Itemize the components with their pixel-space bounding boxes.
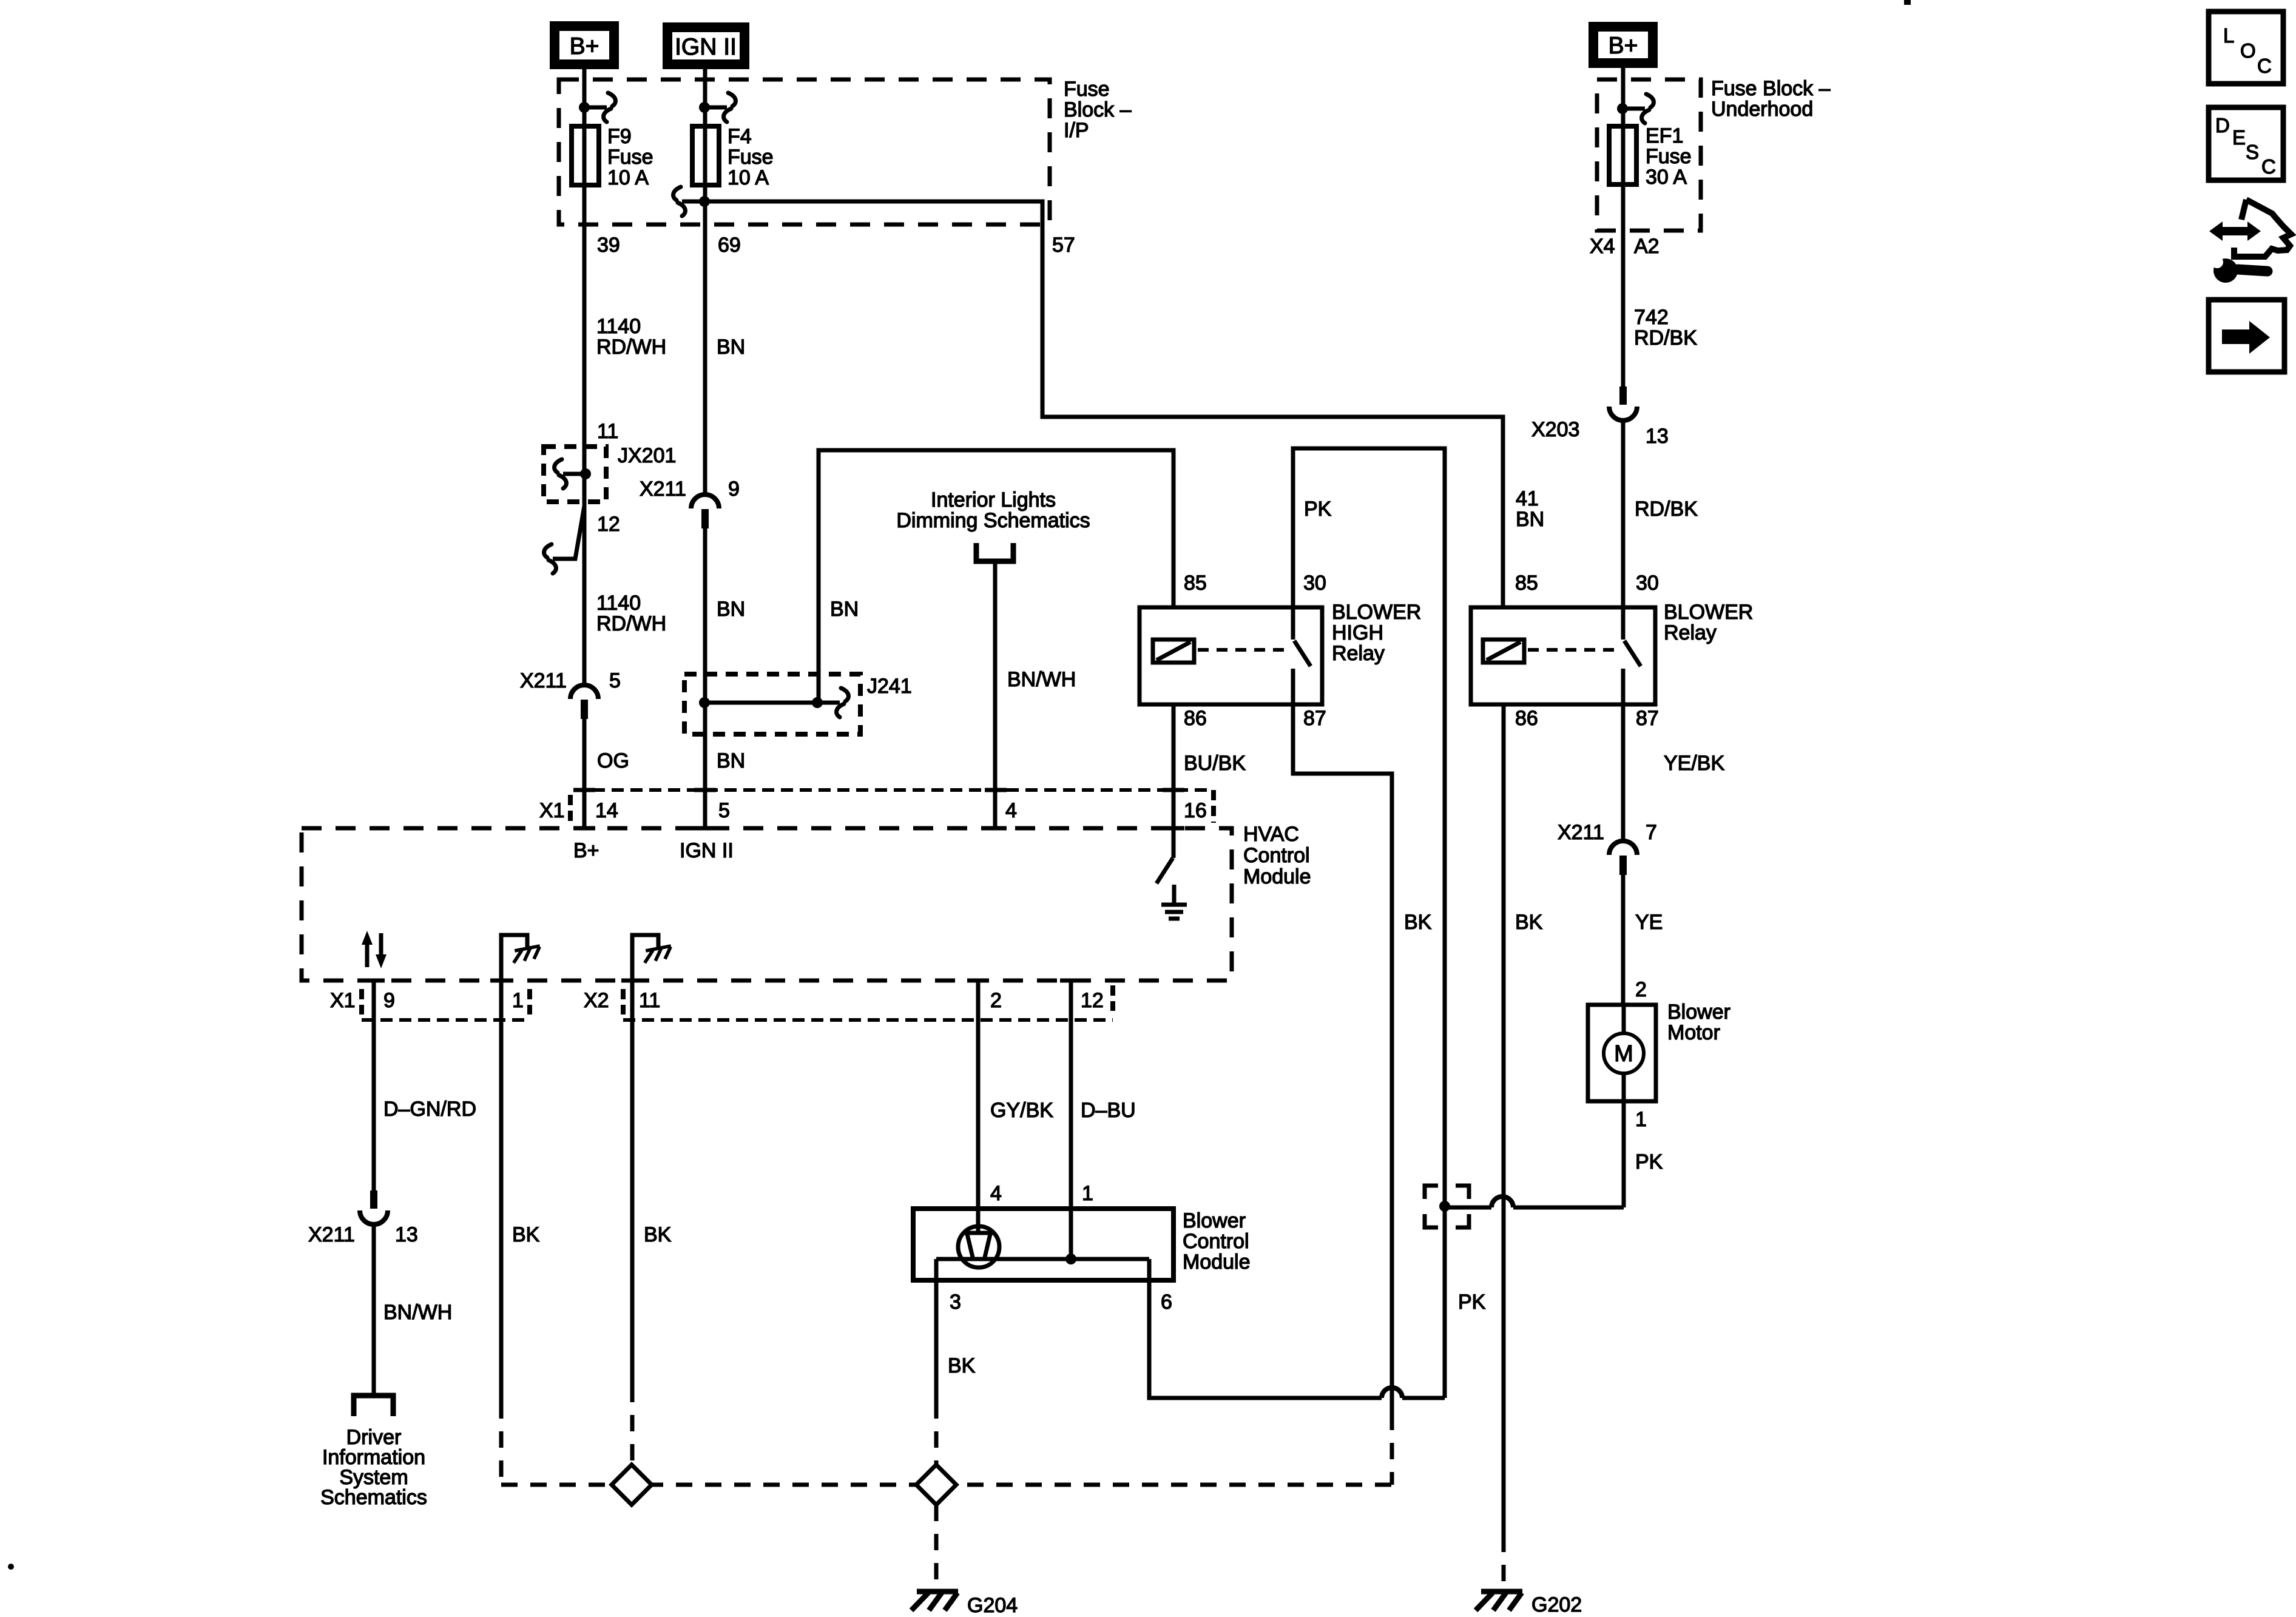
svg-text:BN: BN [1516,508,1544,531]
wire BN/WH to driver information system [372,1223,376,1396]
power feed B+ (fuse block underhood) [1589,22,1658,68]
svg-text:Fuse: Fuse [1064,78,1110,101]
label X211 9 [640,478,740,501]
svg-text:Motor: Motor [1667,1021,1720,1044]
wire BU/BK from blower high relay 86 to HVAC pin 16 [1172,704,1176,858]
svg-text:X1: X1 [539,799,565,822]
wire YE/BK from blower relay 87 [1621,704,1626,841]
node junction at fuse EF1 input [1617,103,1628,114]
wire label 41 BN [1516,487,1544,531]
pin crossbars top row [573,788,595,792]
wire BK dashed (pin 3) to splice diamond [934,1402,939,1465]
wire BN/WH to HVAC pin 4 [993,561,998,828]
fuse F9 terminal clip [584,106,607,110]
wire B+ feed down (circuit 1140) [582,69,587,685]
wire BK from blower high relay 87 [1293,704,1392,1414]
svg-text:4: 4 [1005,799,1017,822]
svg-text:Blower: Blower [1667,1001,1730,1024]
label X203 13 [1531,418,1669,448]
svg-text:Control: Control [1243,844,1310,867]
svg-text:BN/WH: BN/WH [1007,668,1076,691]
label X211 5 [520,669,621,692]
label X211 13 [308,1223,418,1246]
svg-text:13: 13 [395,1223,418,1246]
wire OG to HVAC pin 14 [582,719,587,828]
wire splice J241 link [704,701,817,705]
svg-text:13: 13 [1646,425,1669,448]
wire BN riser from J241 to blower high relay 85 [819,450,1173,703]
node junction at fuse F4 input [699,102,710,113]
label Blower Control Module [1183,1209,1251,1274]
wire from blower control pin 6 [1149,1259,1382,1398]
relay BLOWER HIGH contact switch [1291,607,1295,640]
wire BK dashed (pin 1) to ground bus corner [499,1402,504,1487]
svg-text:39: 39 [597,234,620,257]
relay BLOWER box [1471,607,1655,704]
svg-text:B+: B+ [573,839,599,862]
svg-text:12: 12 [1081,989,1104,1012]
icon vehicle with double arrow and wrench [2209,200,2291,283]
svg-text:X1: X1 [330,989,356,1012]
wire BK from blower control pin 3 [934,1259,939,1402]
wire BK from HVAC pin 1 [499,981,504,1402]
wire pin 6 run to PK junction [1402,1396,1445,1400]
wire label 1140 RD/WH (below splice) [596,592,666,635]
relay BLOWER coil-contact dashed link [1528,648,1620,652]
module Blower Control Module box [913,1209,1173,1280]
svg-text:BN/WH: BN/WH [383,1301,452,1324]
label BLOWER Relay [1664,601,1753,644]
connector separator dashes (bottom row) [359,989,364,1014]
ground bus dashed line [501,1483,1392,1487]
serial data arrows (HVAC pin 9) [362,931,387,968]
label Fuse Block Underhood [1711,77,1831,121]
svg-text:X211: X211 [520,669,567,692]
splice JX201 terminal clip [563,472,586,476]
svg-text:Relay: Relay [1664,621,1717,644]
svg-text:9: 9 [383,989,395,1012]
svg-text:RD/WH: RD/WH [596,612,666,635]
svg-text:Module: Module [1243,865,1311,888]
svg-text:X4: X4 [1590,235,1615,258]
svg-text:BLOWER: BLOWER [1332,601,1421,624]
svg-text:G202: G202 [1531,1593,1582,1616]
svg-text:C: C [2257,55,2272,77]
svg-text:87: 87 [1303,707,1326,730]
svg-text:JX201: JX201 [618,444,676,467]
fuse F9 10 A [572,126,599,185]
svg-text:6: 6 [1161,1291,1172,1314]
svg-text:X211: X211 [1558,821,1604,844]
svg-text:1: 1 [512,989,524,1012]
svg-text:Relay: Relay [1332,642,1385,665]
svg-text:I/P: I/P [1064,119,1089,142]
svg-text:Interior Lights: Interior Lights [931,488,1056,511]
connector X211 pin 13 [370,1190,377,1209]
wire RD/BK to blower relay 30 [1621,419,1626,607]
label pins 4 and 1 (blower control inputs) [990,1182,1093,1205]
wire YE to blower motor pin 2 [1621,875,1626,1005]
svg-text:Underhood: Underhood [1711,98,1813,121]
svg-text:D–GN/RD: D–GN/RD [383,1098,476,1121]
fuse F4 10 A [692,126,719,185]
wire BN to HVAC pin 5 [703,528,707,828]
svg-text:RD/WH: RD/WH [596,336,666,359]
svg-text:BLOWER: BLOWER [1664,601,1753,624]
connector X1 separator dashes (top row) [568,795,573,824]
node junction pin 1 to output [1065,1254,1076,1264]
label pins 85 30 86 87 (blower relay) [1515,572,1659,730]
icon forward arrow box [2209,300,2284,372]
svg-text:Control: Control [1183,1230,1249,1253]
svg-text:S: S [2246,141,2259,163]
svg-text:EF1: EF1 [1646,124,1683,147]
label X1 14 5 4 16 (top row) [539,799,1207,822]
svg-text:F4: F4 [728,125,752,148]
svg-text:1140: 1140 [596,315,641,338]
svg-text:PK: PK [1635,1150,1663,1173]
svg-text:3: 3 [950,1291,961,1314]
splice diamond (pin 11 BK) [612,1465,652,1505]
fuse EF1 terminal clip [1622,107,1645,111]
svg-text:1: 1 [1082,1182,1093,1205]
label Blower Motor [1667,1001,1730,1044]
svg-text:O: O [2240,39,2256,62]
node junction at fuse F9 input [579,102,590,113]
svg-text:HVAC: HVAC [1243,823,1299,846]
svg-text:Blower: Blower [1183,1209,1246,1232]
svg-text:IGN II: IGN II [680,839,734,862]
svg-text:IGN II: IGN II [675,34,737,60]
relay BLOWER contact switch [1621,607,1626,640]
connector X1 bottom dotted row [362,1018,529,1022]
svg-text:86: 86 [1184,707,1207,730]
wire PK from splice to blower control pin 6 junction [1443,1206,1447,1398]
pin crossbars module top edge [573,826,595,831]
svg-text:Dimming Schematics: Dimming Schematics [896,509,1090,532]
svg-text:BN: BN [830,598,859,621]
connector X211 pin 7 [1609,841,1637,855]
pin crossbars module bottom edge [363,979,385,983]
icon LOC box [2209,12,2283,84]
driver transistor symbol (blower control) [958,1226,999,1268]
wire label 742 RD/BK [1634,306,1697,349]
wire BK dashed continuation to ground bus [1390,1414,1394,1485]
page speck top right [1904,0,1911,5]
wire PK from blower high relay 30 down to splice [1293,448,1445,1206]
label F9 Fuse 10 A [607,125,653,189]
svg-text:L: L [2223,24,2234,47]
off-page bracket interior lights [976,543,1013,561]
label HVAC Control Module [1243,823,1311,888]
label BLOWER HIGH Relay [1332,601,1421,665]
node splice J241 on IGN II wire [699,697,710,708]
fuse block I/P dashed enclosure [559,79,1050,224]
component Blower Motor box [1588,1005,1656,1101]
svg-text:PK: PK [1304,498,1332,521]
svg-text:BN: BN [717,598,745,621]
wire hop over BK at pin 6 run [1382,1388,1402,1398]
svg-text:5: 5 [609,669,621,692]
svg-text:11: 11 [597,420,618,443]
svg-text:7: 7 [1646,821,1657,844]
svg-text:4: 4 [990,1182,1002,1205]
connector X2 bottom dotted row [623,1018,1113,1022]
svg-text:10 A: 10 A [607,166,649,189]
label X1 9 1 X2 11 2 12 (bottom row) [330,989,1104,1012]
fuse F4 terminal clip [704,106,727,110]
wire BK dashed (pin 11) to splice diamond [630,1386,635,1465]
relay BLOWER HIGH coil-contact dashed link [1198,648,1290,652]
label F4 Fuse 10 A [728,125,774,189]
svg-text:D–BU: D–BU [1081,1099,1136,1122]
svg-text:Fuse: Fuse [728,146,774,169]
svg-text:HIGH: HIGH [1332,621,1383,644]
ground G202 [1481,1589,1522,1595]
svg-text:85: 85 [1515,572,1538,595]
label X211 7 [1558,821,1657,844]
svg-text:Schematics: Schematics [320,1486,427,1509]
power feed B+ (fuse block I/P) [550,21,619,69]
svg-text:57: 57 [1052,234,1075,257]
svg-text:A2: A2 [1634,235,1660,258]
svg-text:B+: B+ [570,33,599,59]
svg-text:2: 2 [990,989,1002,1012]
svg-text:742: 742 [1634,306,1669,329]
svg-text:YE: YE [1635,911,1663,934]
svg-text:Fuse Block –: Fuse Block – [1711,77,1831,100]
svg-text:D: D [2215,114,2230,137]
wire label 1140 RD/WH [596,315,666,359]
svg-text:87: 87 [1636,707,1659,730]
node splice JX201 [580,468,591,479]
wire internal output bus of blower control module [936,1257,1149,1261]
relay BLOWER coil [1483,640,1524,663]
svg-text:X203: X203 [1531,418,1579,441]
wire fuse output 57 to blower relay 85 (41 BN) [704,201,1503,607]
switch HVAC blower control (pin 16) and internal ground [1172,828,1176,858]
svg-text:GY/BK: GY/BK [990,1099,1053,1122]
svg-text:PK: PK [1458,1291,1486,1314]
svg-text:30 A: 30 A [1646,166,1687,189]
motor symbol M [1622,1005,1626,1034]
svg-text:YE/BK: YE/BK [1664,752,1724,775]
svg-text:Fuse: Fuse [1646,145,1692,168]
svg-text:C: C [2261,155,2276,178]
splice diamond (pin 3 BK, G204) [916,1465,956,1505]
svg-text:Fuse: Fuse [607,146,653,169]
splice J241 terminal clip [817,701,840,705]
label B+ and IGN II (module inputs) [573,839,734,862]
svg-text:RD/BK: RD/BK [1634,326,1697,349]
fuse F4 output terminal clip [682,200,704,204]
svg-text:16: 16 [1184,799,1207,822]
wire BK from HVAC pin 11 [630,981,635,1386]
wire hop over BK at motor return [1491,1197,1513,1207]
svg-text:9: 9 [728,478,740,501]
svg-text:BN: BN [717,336,745,359]
svg-text:69: 69 [718,234,741,257]
svg-text:BU/BK: BU/BK [1184,752,1246,775]
svg-text:X211: X211 [640,478,686,501]
svg-text:E: E [2232,126,2246,149]
internal ground hook (HVAC pin 11) [632,935,658,981]
svg-text:85: 85 [1184,572,1207,595]
svg-text:Block –: Block – [1064,98,1132,121]
internal ground hook (HVAC pin 1) [501,935,527,981]
icon DESC box [2209,107,2283,180]
connector X211 pin 5 [570,685,598,699]
svg-text:30: 30 [1303,572,1326,595]
wire dashed BK to ground G202 [1502,1536,1506,1588]
wire PK from blower motor pin 1 [1622,1101,1626,1207]
fuse block underhood dashed enclosure [1597,79,1701,231]
svg-text:86: 86 [1515,707,1538,730]
svg-text:BK: BK [512,1223,540,1246]
svg-text:BK: BK [1404,911,1432,934]
wire PK motor return to splice [1513,1206,1624,1210]
label Interior Lights Dimming Schematics [896,488,1090,532]
wire GY/BK from HVAC pin 2 [976,981,981,1209]
node splice PK (dashed corner brackets) [1439,1201,1450,1212]
svg-text:2: 2 [1635,978,1647,1001]
svg-text:10 A: 10 A [728,166,769,189]
svg-text:BK: BK [1515,911,1543,934]
wire D-BU from HVAC pin 12 [1069,981,1073,1259]
wire BK from blower relay 86 to G202 [1502,704,1506,1536]
label pins 85 30 86 87 (blower high relay) [1184,572,1326,730]
svg-text:11: 11 [639,989,660,1012]
svg-text:OG: OG [597,749,629,772]
label X4 A2 [1590,235,1660,258]
connector X1 top dotted row [574,788,1214,792]
power feed IGN II [663,22,749,69]
relay BLOWER HIGH coil [1153,640,1194,663]
svg-text:G204: G204 [967,1594,1018,1617]
off-page bracket driver information system [354,1396,393,1416]
splice JX201 lower leg with clip [553,506,584,559]
connector row end dashes (pin 16) [1211,790,1216,823]
splice pack JX201 dashed box [544,447,606,502]
page speck bottom left [8,1564,14,1570]
svg-text:B+: B+ [1609,33,1638,59]
connector X203 pin 13 [1619,387,1627,405]
svg-text:BK: BK [644,1223,672,1246]
svg-text:X2: X2 [584,989,609,1012]
wire D-GN/RD from HVAC pin 9 [372,981,376,1190]
svg-text:BN: BN [717,749,745,772]
splice pack J241 dashed box [684,674,860,734]
svg-text:12: 12 [597,513,620,536]
connector X211 pin 9 [691,495,719,508]
module HVAC Control Module dashed box [302,828,1232,981]
svg-text:41: 41 [1516,487,1539,510]
wire IGN II feed down [703,69,707,495]
svg-text:1: 1 [1635,1108,1647,1131]
wire B+ underhood feed down (circuit 742) [1621,68,1626,387]
svg-text:BK: BK [948,1354,976,1377]
svg-text:14: 14 [595,799,618,822]
svg-text:RD/BK: RD/BK [1635,498,1698,521]
node junction at fuse F4 output [699,196,710,207]
label EF1 Fuse 30 A [1646,124,1692,189]
svg-text:X211: X211 [308,1223,355,1246]
label Driver Information System Schematics [320,1426,427,1509]
svg-text:30: 30 [1636,572,1659,595]
node splice J241 output [812,697,823,708]
label Fuse Block I/P [1064,78,1132,142]
svg-text:M: M [1614,1041,1633,1067]
relay BLOWER HIGH box [1140,607,1322,704]
ground G204 [917,1589,958,1595]
svg-text:J241: J241 [867,675,912,698]
wire dashed to ground G204 [934,1505,939,1588]
svg-text:Module: Module [1183,1251,1251,1274]
svg-text:F9: F9 [607,125,632,148]
svg-text:1140: 1140 [596,592,641,615]
fuse EF1 30 A [1609,126,1636,184]
svg-text:5: 5 [718,799,730,822]
